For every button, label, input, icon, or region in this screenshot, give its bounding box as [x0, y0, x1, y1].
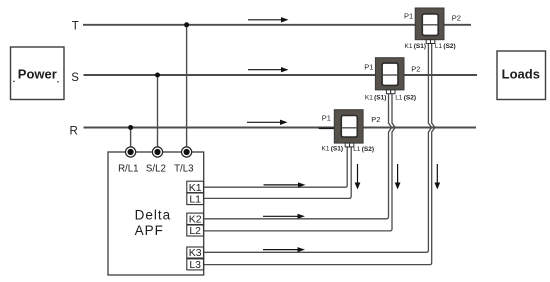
CT1 secondary terminal K1(S1)	[345, 143, 349, 147]
current transformer CT3 on phase T	[404, 8, 461, 50]
Power source box	[11, 47, 65, 100]
wire: L1 secondary lead from APF to CT1	[204, 147, 352, 199]
down flow arrow at CT2 secondary pair	[395, 164, 401, 189]
svg-text:P2: P2	[411, 65, 420, 74]
CT2 core body	[375, 58, 404, 90]
CT3 window	[422, 14, 438, 36]
wire: dark P1 lead of CT1 on phase R	[319, 127, 336, 129]
svg-text:L1: L1	[189, 194, 201, 206]
svg-text:L1(S2): L1(S2)	[435, 43, 456, 50]
svg-text:T/L3: T/L3	[174, 164, 193, 175]
svg-text:Delta: Delta	[135, 208, 172, 223]
CT3 core body	[415, 8, 444, 40]
APF terminal box K2	[187, 213, 204, 226]
svg-text:R/L1: R/L1	[118, 164, 138, 175]
wire: K2 secondary lead from APF to CT2 (jog over phase R)	[204, 93, 392, 218]
svg-text:L1(S2): L1(S2)	[353, 146, 374, 153]
svg-text:P1: P1	[364, 62, 373, 71]
APF terminal box L1	[187, 193, 204, 206]
svg-text:P2: P2	[452, 13, 461, 22]
CT1 primary conductor through window	[341, 127, 357, 129]
flow arrow on wire K3	[263, 247, 305, 252]
APF terminal box L2	[187, 225, 204, 237]
CT2 secondary terminal L1(S2)	[391, 90, 395, 94]
flow arrow on wire K1	[264, 182, 306, 187]
svg-text:L2: L2	[189, 225, 201, 237]
wire: drop from phase S to APF terminal S/L2	[157, 75, 159, 150]
Loads box	[497, 51, 546, 100]
APF terminal box K3	[187, 247, 204, 259]
svg-text:K2: K2	[189, 214, 202, 226]
APF input terminal R/L1	[126, 147, 136, 157]
svg-text:K1(S1): K1(S1)	[322, 146, 344, 153]
APF input terminal S/L2	[152, 147, 162, 157]
wire: L2 secondary lead from APF to CT2 (jog over phase R)	[204, 93, 396, 231]
current transformer CT1 on phase R	[322, 110, 381, 153]
svg-text:K1: K1	[189, 182, 202, 194]
CT2 secondary terminal K1(S1)	[386, 90, 390, 94]
svg-text:S: S	[71, 72, 79, 84]
down flow arrow at CT1 secondary pair	[355, 164, 361, 189]
flow arrow on wire K2	[263, 214, 305, 219]
svg-text:K1(S1): K1(S1)	[365, 94, 387, 101]
wire: phase line S	[84, 74, 478, 76]
svg-text:K1(S1): K1(S1)	[405, 43, 427, 50]
CT1 window	[341, 116, 357, 138]
CT3 primary conductor through window	[422, 24, 438, 26]
svg-text:APF: APF	[135, 223, 164, 238]
APF terminal box K1	[187, 181, 204, 194]
CT3 secondary terminal L1(S2)	[431, 40, 435, 44]
CT1 secondary terminal L1(S2)	[350, 143, 354, 147]
junction dot on phase R	[128, 125, 133, 130]
current transformer CT2 on phase S	[364, 58, 420, 102]
wire: drop from phase T to APF terminal T/L3	[186, 25, 188, 150]
svg-text:P1: P1	[322, 114, 331, 123]
svg-text:L1(S2): L1(S2)	[395, 95, 416, 102]
CT1 core body	[334, 110, 363, 143]
svg-text:Loads: Loads	[502, 67, 540, 82]
svg-text:K3: K3	[189, 247, 202, 259]
CT3 secondary terminal K1(S1)	[426, 40, 430, 44]
svg-text:Power: Power	[18, 67, 57, 82]
CT2 primary conductor through window	[382, 74, 398, 76]
wire: K1 secondary lead from APF to CT1	[204, 147, 348, 188]
speck right of Power label	[57, 81, 59, 83]
speck left of Power label	[13, 81, 15, 83]
svg-text:P1: P1	[404, 11, 413, 20]
APF input terminal T/L3	[182, 147, 192, 157]
wire: drop from phase R to APF terminal R/L1	[130, 128, 132, 151]
svg-text:T: T	[72, 21, 79, 33]
svg-text:L3: L3	[189, 259, 201, 271]
junction dot on phase T	[184, 22, 189, 27]
wire: phase line R	[84, 127, 477, 129]
down flow arrow at CT3 secondary pair	[434, 164, 440, 189]
wire: L3 secondary lead from APF to CT3 (jog over phase R)	[204, 43, 435, 264]
Delta APF unit box	[108, 152, 204, 275]
svg-text:R: R	[70, 125, 78, 137]
CT2 window	[382, 63, 398, 85]
current flow arrow on phase S	[248, 67, 289, 72]
wire: phase line T	[83, 24, 471, 26]
current flow arrow on phase R	[247, 120, 288, 125]
current flow arrow on phase T	[248, 17, 289, 22]
wire: K3 secondary lead from APF to CT3 (jog over phase R)	[204, 43, 432, 252]
APF terminal box L3	[187, 259, 204, 271]
svg-text:S/L2: S/L2	[146, 164, 166, 175]
junction dot on phase S	[155, 73, 160, 78]
svg-text:P2: P2	[371, 115, 380, 124]
